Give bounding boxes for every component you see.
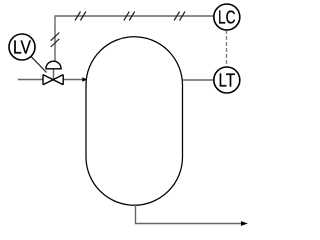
- instrument bubble LC: [214, 4, 240, 30]
- pneumatic slash marks 1 on horizontal signal line: [75, 12, 86, 21]
- svg-text:LC: LC: [218, 7, 236, 28]
- wire outlet pipe from vessel bottom: [136, 205, 242, 223]
- valve actuator dome: [46, 61, 61, 69]
- pneumatic slash marks 3 on horizontal signal line: [174, 12, 185, 21]
- instrument bubble LV: [9, 34, 35, 60]
- vessel V1: [86, 37, 183, 206]
- valve actuator stem: [53, 69, 55, 79]
- wire feed pipe into valve: [18, 79, 43, 81]
- wire pipe valve to vessel: [63, 79, 82, 81]
- connection line LV bubble to valve actuator: [31, 56, 47, 72]
- wire pneumatic signal line valve to LC: [55, 16, 214, 61]
- svg-text:LV: LV: [13, 37, 32, 58]
- instrument bubble LT: [214, 67, 240, 93]
- pneumatic slash marks on vertical signal line: [51, 33, 60, 48]
- wire LT sensing line: [183, 79, 215, 81]
- control valve body (bowtie): [43, 75, 63, 85]
- arrowhead outlet: [241, 221, 248, 226]
- svg-text:LT: LT: [219, 70, 236, 91]
- arrowhead into vessel: [82, 77, 87, 82]
- pneumatic slash marks 2 on horizontal signal line: [124, 12, 135, 21]
- dashed signal line LC to LT: [226, 30, 228, 67]
